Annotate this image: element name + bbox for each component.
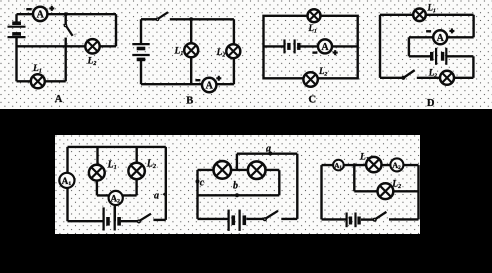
svg-text:a: a	[154, 190, 159, 201]
wire L2 branch down 3	[353, 165, 355, 191]
node b 2	[235, 193, 239, 197]
wire bottom right stub 2	[281, 218, 297, 220]
svg-text:C: C	[309, 95, 317, 106]
minus label ammeter D	[426, 30, 431, 32]
wire bottom middle 2	[246, 218, 263, 220]
wire top 3	[322, 164, 419, 166]
wire right vertical B	[233, 19, 235, 84]
wire top D	[380, 14, 474, 16]
plus label ammeter D	[449, 28, 454, 33]
wire third row left D	[409, 55, 432, 57]
battery 2	[229, 210, 245, 231]
svg-text:A: A	[37, 10, 45, 21]
wire L2 branch lower 1	[135, 179, 137, 195]
wire top right B	[170, 18, 234, 20]
switch S 3	[373, 212, 386, 221]
svg-text:L1: L1	[174, 47, 184, 58]
lamp left 2	[214, 161, 232, 179]
wire right vertical 2	[296, 154, 298, 219]
wire L2 row 3	[354, 190, 418, 192]
wire left vertical D	[379, 15, 381, 78]
ammeter A2	[109, 191, 123, 205]
ammeter A2 3	[390, 158, 403, 171]
wire bottom A	[17, 80, 66, 82]
ammeter C	[318, 39, 332, 53]
svg-text:L1: L1	[32, 64, 42, 75]
wire b row 2	[198, 194, 280, 196]
battery 3	[347, 213, 360, 228]
svg-text:A: A	[437, 33, 445, 44]
lamp L2 D	[440, 71, 454, 85]
svg-text:b: b	[233, 180, 238, 191]
wire L2 branch upper 1	[135, 147, 137, 163]
svg-text:D: D	[427, 98, 435, 109]
wire top left B	[141, 18, 157, 20]
svg-text:L2: L2	[391, 179, 401, 190]
node c 2	[196, 179, 200, 183]
ammeter B	[202, 78, 216, 92]
lamp L1 A	[31, 74, 45, 88]
battery A	[8, 23, 26, 37]
wire middle left C	[264, 45, 285, 47]
svg-text:L2: L2	[87, 57, 97, 68]
lamp L2 B	[226, 44, 240, 58]
lamp L2 A	[85, 39, 99, 53]
switch S 1	[138, 214, 151, 223]
svg-text:L1: L1	[107, 160, 117, 172]
plus label ammeter A	[49, 6, 54, 11]
wire bottom left 3	[322, 218, 346, 220]
node junction top B	[189, 17, 193, 21]
wire mid-left vertical D	[408, 37, 410, 56]
wire right vertical 3	[417, 165, 419, 219]
lamp L1 3	[366, 157, 381, 172]
plus label ammeter C	[333, 50, 338, 55]
wire ammeter A2 row 1	[97, 194, 137, 196]
wire battery top B	[140, 19, 142, 43]
wire bottom right stub 3	[389, 218, 419, 220]
wire corner right lamps 2	[278, 170, 280, 195]
wire bottom middle 3	[361, 218, 373, 220]
wire left vertical A	[15, 37, 17, 81]
svg-text:a: a	[266, 143, 271, 154]
svg-text:A: A	[206, 81, 214, 92]
wire middle right C	[299, 45, 358, 47]
wire bottom left D	[380, 77, 402, 79]
switch S B	[156, 12, 168, 20]
svg-text:L2: L2	[146, 159, 156, 171]
battery B	[132, 44, 149, 59]
battery C	[285, 39, 299, 53]
minus label ammeter B	[195, 79, 200, 81]
switch S D	[402, 70, 415, 79]
wire L1 branch upper 1	[96, 147, 98, 165]
wire left vertical 2	[196, 170, 198, 219]
wire bottom right D	[454, 77, 473, 79]
wire top A	[17, 13, 117, 15]
wire left vertical 3	[320, 165, 322, 219]
lamp L1 C	[308, 9, 321, 22]
plus label ammeter B	[216, 76, 221, 81]
svg-text:A: A	[321, 42, 329, 53]
switch S 2	[264, 211, 278, 221]
battery 1	[104, 207, 120, 230]
wire junction up 2	[236, 154, 238, 170]
wire bottom middle 1	[121, 220, 138, 222]
wire left upper 1	[66, 147, 68, 173]
wire bottom left 1	[68, 220, 103, 222]
wire top 2	[237, 152, 297, 154]
wire middle horizontal A	[17, 45, 117, 47]
node junction 3	[353, 163, 357, 167]
svg-text:L2: L2	[318, 66, 328, 78]
battery D	[432, 48, 447, 65]
wire outer rectangle C	[264, 16, 358, 79]
wire lamp left stub D	[417, 77, 440, 79]
lamp L2 1	[128, 163, 144, 179]
wire third row right D	[446, 55, 473, 57]
svg-text:L2: L2	[216, 48, 226, 59]
ammeter A	[33, 7, 47, 21]
wire right vertical lower D	[472, 56, 474, 78]
lamp L2 3	[378, 183, 394, 199]
wire L1 branch lower 1	[96, 181, 98, 196]
svg-text:L1: L1	[308, 23, 318, 35]
wire middle vertical A	[64, 38, 66, 82]
ammeter A1 3	[333, 160, 344, 171]
svg-text:L1: L1	[427, 3, 437, 15]
svg-text:c: c	[200, 177, 205, 188]
svg-text:A: A	[55, 94, 63, 105]
lamp L1 B	[184, 43, 198, 57]
wire lamps row 2	[198, 169, 280, 171]
switch S A	[64, 14, 76, 36]
wire bottom left 2	[198, 218, 228, 220]
wire A2 stub down 1	[114, 205, 116, 221]
lamp L2 C	[303, 72, 317, 86]
wire bottom right stub 1	[153, 219, 165, 221]
lamp right 2	[248, 161, 266, 179]
lamp L1 1	[89, 165, 105, 181]
wire right vertical upper D	[472, 15, 474, 38]
svg-text:B: B	[186, 96, 193, 107]
wire left lower 1	[66, 188, 68, 221]
wire second row D	[409, 36, 474, 38]
wire bottom B	[141, 83, 234, 85]
svg-text:L1: L1	[359, 153, 369, 164]
minus label ammeter A	[26, 8, 31, 10]
wire L1 branch B	[190, 19, 192, 84]
wire right vertical 1	[165, 147, 167, 220]
wire left vertical B	[140, 59, 142, 84]
ammeter D	[433, 30, 447, 44]
node a 2	[268, 152, 272, 156]
ammeter A1	[59, 173, 74, 188]
node a arrow 1	[162, 192, 166, 197]
wire battery left top A	[15, 14, 17, 22]
wire top 1	[68, 146, 166, 148]
lamp L1 D	[413, 9, 426, 22]
minus label ammeter C	[312, 51, 317, 53]
node junction top A	[64, 12, 68, 16]
wire right vertical A	[115, 14, 117, 46]
